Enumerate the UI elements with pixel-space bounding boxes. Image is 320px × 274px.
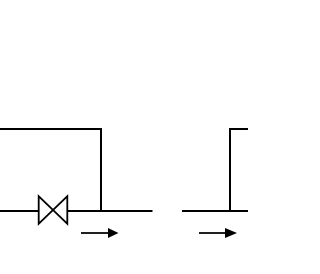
wire: left main inlet segment [0, 210, 39, 212]
wire: right main line [182, 210, 248, 212]
flow arrow A2 head [225, 228, 237, 238]
wire: right bypass vertical [229, 128, 231, 212]
wire: left main outlet segment [67, 210, 152, 212]
wire: left bypass right vertical [100, 128, 102, 212]
valve V1 (bowtie symbol) [39, 196, 68, 224]
flow arrow A1 shaft [81, 232, 110, 234]
flow arrow A1 head [108, 228, 119, 238]
wire: right bypass top horizontal [229, 128, 248, 130]
wire: left bypass top horizontal [0, 128, 102, 130]
flow arrow A2 shaft [199, 232, 227, 234]
